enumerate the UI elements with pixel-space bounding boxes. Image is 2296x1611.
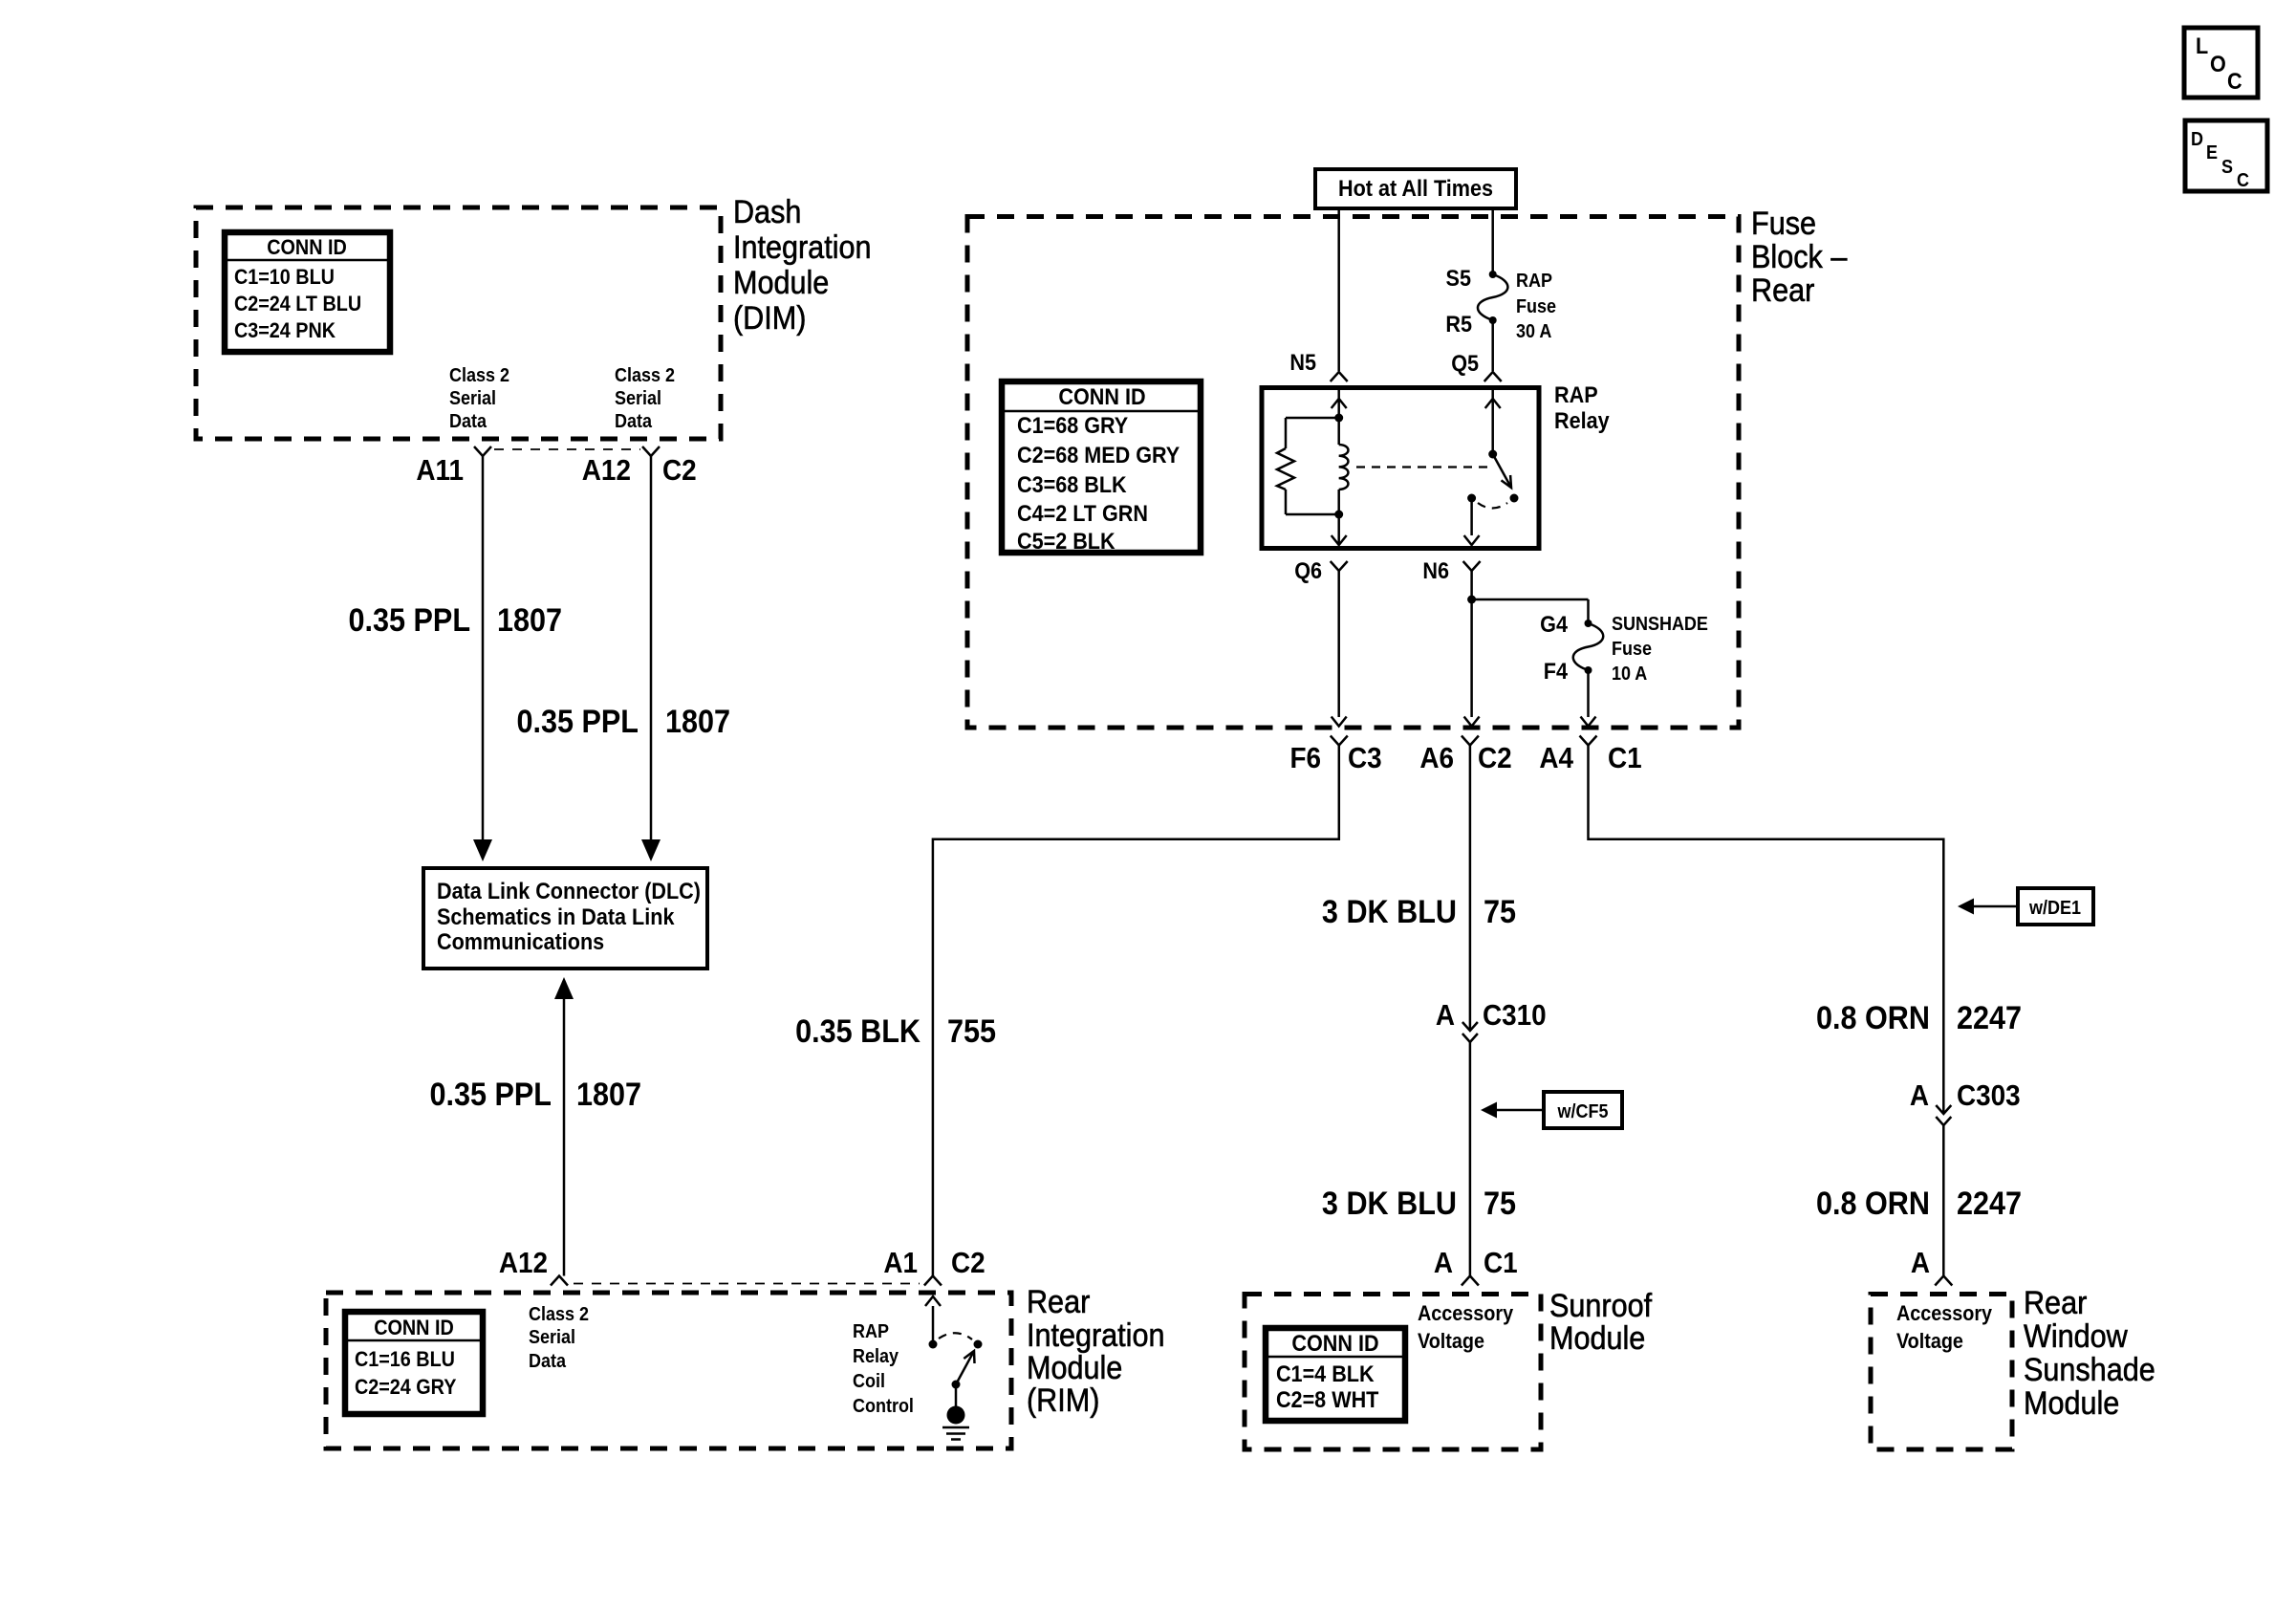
svg-text:1807: 1807 xyxy=(576,1077,641,1113)
RAP Relay box xyxy=(1262,388,1539,549)
relay switch NO contact xyxy=(1510,494,1519,503)
wire label 0.35 PPL 1807 (A12) xyxy=(516,704,730,740)
svg-text:C: C xyxy=(2237,170,2249,191)
svg-text:A12: A12 xyxy=(582,454,631,488)
svg-text:Voltage: Voltage xyxy=(1418,1330,1484,1353)
RIM connector terminal A1 / C2 xyxy=(883,1247,985,1286)
ground symbol xyxy=(942,1406,969,1440)
svg-text:C1=4 BLK: C1=4 BLK xyxy=(1276,1361,1375,1386)
svg-text:CONN ID: CONN ID xyxy=(267,236,347,259)
wire: A12 to DLC (0.35 PPL 1807) xyxy=(641,456,661,861)
wire label 3 DK BLU 75 (lower) xyxy=(1322,1186,1516,1222)
svg-text:L: L xyxy=(2196,33,2208,58)
svg-text:Window: Window xyxy=(2024,1318,2128,1355)
svg-text:(RIM): (RIM) xyxy=(1027,1382,1099,1419)
svg-text:Integration: Integration xyxy=(1027,1317,1165,1354)
label: Accessory Voltage (Sunroof) xyxy=(1418,1302,1513,1353)
svg-text:A11: A11 xyxy=(416,454,464,488)
svg-text:C2: C2 xyxy=(951,1247,986,1280)
svg-text:C1: C1 xyxy=(1608,742,1642,775)
svg-text:RAP: RAP xyxy=(1516,271,1552,292)
wire label 0.35 PPL 1807 (A11) xyxy=(349,602,563,639)
svg-text:Class 2: Class 2 xyxy=(449,365,509,386)
CONN ID table (DIM) xyxy=(225,232,390,352)
connector terminal A11 (DIM) xyxy=(416,446,491,487)
svg-text:3 DK BLU: 3 DK BLU xyxy=(1322,894,1457,930)
svg-text:Dash: Dash xyxy=(733,194,801,230)
in-line connector A C310 xyxy=(1436,999,1547,1042)
wire label 3 DK BLU 75 (upper) xyxy=(1322,894,1516,930)
svg-text:w/CF5: w/CF5 xyxy=(1557,1101,1609,1122)
wire: F4 to fuse block edge A4 xyxy=(1581,670,1596,727)
svg-text:w/DE1: w/DE1 xyxy=(2028,898,2081,919)
CONN ID table (RIM) xyxy=(345,1312,483,1414)
svg-text:D: D xyxy=(2191,129,2203,150)
rear window sunshade connector terminal A xyxy=(1911,1247,1952,1286)
RIM driver: arrow up to A1 xyxy=(925,1296,941,1344)
wire: C3 to RIM A1 (0.35 BLK 755) xyxy=(933,746,1339,1276)
svg-text:Block –: Block – xyxy=(1751,239,1847,275)
svg-text:F4: F4 xyxy=(1544,658,1568,684)
label: Rear Window Sunshade Module xyxy=(2024,1285,2155,1422)
svg-text:Sunroof: Sunroof xyxy=(1549,1288,1653,1324)
svg-text:CONN ID: CONN ID xyxy=(1291,1330,1378,1356)
wire: RIM A12 up to DLC (0.35 PPL 1807) xyxy=(554,977,574,1276)
svg-text:A1: A1 xyxy=(883,1247,918,1280)
svg-text:Serial: Serial xyxy=(449,388,496,409)
svg-text:C2=8 WHT: C2=8 WHT xyxy=(1276,1386,1378,1412)
box: Hot at All Times xyxy=(1315,169,1516,208)
wire label 0.8 ORN 2247 (upper) xyxy=(1816,1000,2022,1036)
RAP Fuse 30 A (S5-R5) xyxy=(1445,265,1556,342)
svg-text:Relay: Relay xyxy=(1554,407,1610,433)
svg-text:0.35 PPL: 0.35 PPL xyxy=(429,1077,552,1113)
wire: junction branch to SUNSHADE fuse xyxy=(1472,599,1589,623)
svg-text:A12: A12 xyxy=(499,1247,548,1280)
relay pin Q6 xyxy=(1294,557,1347,583)
relay switch pivot xyxy=(1488,450,1497,459)
svg-text:Module: Module xyxy=(2024,1385,2119,1422)
svg-text:2247: 2247 xyxy=(1957,1186,2022,1222)
wire: A11 to DLC (0.35 PPL 1807) xyxy=(473,456,492,861)
label: Rear Integration Module (RIM) xyxy=(1027,1284,1165,1419)
svg-text:Serial: Serial xyxy=(529,1327,575,1348)
svg-text:C1=68 GRY: C1=68 GRY xyxy=(1017,412,1128,438)
harness tag w/DE1 xyxy=(1958,888,2093,925)
svg-text:Rear: Rear xyxy=(1027,1284,1091,1320)
svg-text:Data: Data xyxy=(529,1351,566,1372)
svg-text:C1=16 BLU: C1=16 BLU xyxy=(355,1348,455,1371)
svg-text:A4: A4 xyxy=(1539,742,1573,775)
svg-text:Relay: Relay xyxy=(853,1346,899,1367)
wire: Hot feed to RAP fuse xyxy=(1491,208,1494,274)
relay coil input arrow (N5) xyxy=(1332,389,1347,418)
label: Class 2 Serial Data (A11) xyxy=(449,365,509,432)
svg-text:Control: Control xyxy=(853,1396,914,1417)
module box: Fuse Block - Rear xyxy=(967,217,1739,729)
svg-text:Data Link Connector (DLC): Data Link Connector (DLC) xyxy=(437,878,701,903)
svg-text:C1: C1 xyxy=(1484,1247,1518,1280)
module box: Rear Window Sunshade Module xyxy=(1871,1295,2012,1450)
svg-text:30 A: 30 A xyxy=(1516,321,1552,342)
relay coil output arrow (Q6) xyxy=(1332,514,1347,545)
relay actuation dashed link xyxy=(1356,466,1489,468)
connector pin N5 xyxy=(1289,349,1347,381)
svg-text:CONN ID: CONN ID xyxy=(1058,383,1145,409)
svg-text:RAP: RAP xyxy=(853,1321,889,1342)
svg-text:R5: R5 xyxy=(1445,311,1472,337)
svg-text:C2=68 MED GRY: C2=68 MED GRY xyxy=(1017,442,1180,468)
svg-text:G4: G4 xyxy=(1540,611,1568,637)
wire: junction to fuse block edge A6 xyxy=(1464,599,1480,727)
svg-text:1807: 1807 xyxy=(497,602,562,639)
svg-text:Coil: Coil xyxy=(853,1371,885,1392)
svg-text:0.35 PPL: 0.35 PPL xyxy=(516,704,639,740)
wire: arm to ground xyxy=(955,1384,958,1406)
connector face dashed line A11-A12 xyxy=(494,448,640,450)
label: Fuse Block - Rear xyxy=(1751,206,1847,309)
svg-text:A: A xyxy=(1434,1247,1453,1280)
module box: Sunroof Module xyxy=(1245,1295,1541,1450)
svg-text:Integration: Integration xyxy=(733,229,872,266)
svg-text:Q6: Q6 xyxy=(1294,557,1322,583)
label: RAP Relay xyxy=(1554,381,1610,433)
svg-text:C3=68 BLK: C3=68 BLK xyxy=(1017,471,1127,497)
svg-text:0.8 ORN: 0.8 ORN xyxy=(1816,1186,1930,1222)
CONN ID table (Sunroof) xyxy=(1266,1328,1405,1421)
svg-text:C2=24 LT BLU: C2=24 LT BLU xyxy=(234,293,361,316)
svg-text:Accessory: Accessory xyxy=(1896,1302,1992,1325)
svg-text:Fuse: Fuse xyxy=(1612,639,1652,660)
wire: C303 to rear window sunshade module xyxy=(1942,1125,1945,1276)
svg-text:Module: Module xyxy=(733,265,829,301)
svg-text:Hot at All Times: Hot at All Times xyxy=(1338,175,1493,201)
svg-text:75: 75 xyxy=(1484,1186,1516,1222)
fuse block bottom connector A4/C1 xyxy=(1539,736,1641,775)
wire label 0.8 ORN 2247 (lower) xyxy=(1816,1186,2022,1222)
svg-text:Q5: Q5 xyxy=(1451,350,1479,376)
module box: Dash Integration Module (DIM) xyxy=(196,207,721,439)
svg-text:C4=2 LT GRN: C4=2 LT GRN xyxy=(1017,500,1148,526)
connector pin Q5 xyxy=(1451,350,1502,381)
relay resistor (parallel with coil) xyxy=(1277,418,1339,514)
label: Dash Integration Module (DIM) xyxy=(733,194,872,337)
box: Data Link Connector (DLC) note xyxy=(423,868,707,969)
svg-text:Class 2: Class 2 xyxy=(529,1304,589,1325)
svg-text:C5=2 BLK: C5=2 BLK xyxy=(1017,528,1116,554)
sunroof connector terminal A / C1 xyxy=(1434,1247,1518,1286)
svg-text:E: E xyxy=(2206,142,2218,163)
svg-text:S: S xyxy=(2221,157,2233,178)
svg-text:C310: C310 xyxy=(1483,999,1547,1033)
svg-text:C303: C303 xyxy=(1957,1079,2021,1113)
svg-text:Schematics in Data Link: Schematics in Data Link xyxy=(437,903,675,929)
wire label 0.35 PPL 1807 (RIM A12) xyxy=(429,1077,641,1113)
wire: C1 to C303 (0.8 ORN 2247) xyxy=(1589,746,1944,1115)
LOC page marker xyxy=(2184,28,2258,98)
svg-text:CONN ID: CONN ID xyxy=(374,1317,454,1339)
svg-text:Fuse: Fuse xyxy=(1516,296,1556,317)
RIM connector terminal A12 xyxy=(499,1247,568,1286)
label: Class 2 Serial Data (RIM) xyxy=(529,1304,589,1372)
fuse block bottom connector F6/C3 xyxy=(1289,736,1381,775)
svg-text:755: 755 xyxy=(947,1013,996,1050)
wire label 0.35 BLK 755 xyxy=(795,1013,996,1050)
relay node: coil bottom junction xyxy=(1334,511,1343,519)
svg-text:A6: A6 xyxy=(1419,742,1454,775)
wire: fuse R5 to Q5 xyxy=(1491,320,1494,371)
relay switch movable arm xyxy=(1493,454,1511,488)
module box: Rear Integration Module (RIM) xyxy=(326,1293,1011,1448)
svg-text:C3=24 PNK: C3=24 PNK xyxy=(234,319,336,342)
svg-text:Sunshade: Sunshade xyxy=(2024,1352,2155,1388)
svg-text:C2: C2 xyxy=(1478,742,1512,775)
relay switch output contact (N6) xyxy=(1467,494,1476,503)
svg-text:2247: 2247 xyxy=(1957,1000,2022,1036)
svg-text:0.8 ORN: 0.8 ORN xyxy=(1816,1000,1930,1036)
svg-text:C3: C3 xyxy=(1348,742,1382,775)
RIM switch dashed throw arc xyxy=(939,1333,972,1339)
svg-text:Rear: Rear xyxy=(1751,272,1815,309)
relay switch common input arrow (Q5) xyxy=(1485,389,1501,454)
svg-text:A: A xyxy=(1911,1247,1930,1280)
wire: N6 down to junction xyxy=(1470,571,1473,599)
label: RAP Relay Coil Control xyxy=(853,1321,914,1417)
svg-text:F6: F6 xyxy=(1289,742,1321,775)
svg-text:Module: Module xyxy=(1549,1320,1645,1357)
svg-text:C2=24 GRY: C2=24 GRY xyxy=(355,1376,457,1399)
svg-text:C: C xyxy=(2227,68,2242,94)
svg-text:Rear: Rear xyxy=(2024,1285,2088,1321)
svg-text:A: A xyxy=(1910,1079,1929,1113)
svg-text:(DIM): (DIM) xyxy=(733,300,806,337)
label: Accessory Voltage (RWSM) xyxy=(1896,1302,1992,1353)
svg-text:1807: 1807 xyxy=(665,704,730,740)
svg-text:A: A xyxy=(1436,999,1455,1033)
svg-text:Serial: Serial xyxy=(615,388,661,409)
svg-text:S5: S5 xyxy=(1446,265,1472,291)
svg-text:Class 2: Class 2 xyxy=(615,365,675,386)
svg-text:SUNSHADE: SUNSHADE xyxy=(1612,614,1708,635)
svg-text:0.35 BLK: 0.35 BLK xyxy=(795,1013,921,1050)
svg-text:RAP: RAP xyxy=(1554,381,1598,407)
RIM switch arm pivot xyxy=(952,1381,961,1389)
svg-text:10 A: 10 A xyxy=(1612,664,1648,685)
svg-text:N6: N6 xyxy=(1422,557,1449,583)
relay pin N6 xyxy=(1422,557,1480,583)
RIM switch movable arm xyxy=(956,1351,975,1384)
in-line connector A C303 xyxy=(1910,1079,2021,1125)
relay switch output arrow xyxy=(1464,498,1480,545)
svg-text:Fuse: Fuse xyxy=(1751,206,1816,242)
svg-text:Communications: Communications xyxy=(437,928,604,954)
harness tag w/CF5 xyxy=(1481,1092,1622,1128)
wire: Q6 to fuse block edge F6 xyxy=(1332,571,1347,727)
CONN ID table (Fuse Block) xyxy=(1002,381,1201,554)
wire: C2 down to C310 (3 DK BLU 75) xyxy=(1469,746,1472,1032)
node: N6 branch junction xyxy=(1467,596,1476,604)
RIM switch contact (left) xyxy=(929,1340,938,1349)
svg-text:Accessory: Accessory xyxy=(1418,1302,1513,1325)
svg-text:0.35 PPL: 0.35 PPL xyxy=(349,602,471,639)
RIM switch contact (right) xyxy=(974,1340,983,1349)
svg-text:C2: C2 xyxy=(662,454,697,488)
svg-text:3 DK BLU: 3 DK BLU xyxy=(1322,1186,1457,1222)
svg-text:N5: N5 xyxy=(1289,349,1316,375)
svg-text:75: 75 xyxy=(1484,894,1516,930)
wire: C310 to sunroof module xyxy=(1469,1042,1472,1276)
relay node: coil top junction xyxy=(1334,414,1343,423)
wire: Hot feed to N5 xyxy=(1337,208,1340,371)
svg-text:C1=10 BLU: C1=10 BLU xyxy=(234,266,335,289)
connector face dashed line A12-A1 xyxy=(574,1283,920,1285)
label: Class 2 Serial Data (A12) xyxy=(615,365,675,432)
svg-text:Module: Module xyxy=(1027,1350,1122,1386)
svg-text:Data: Data xyxy=(615,411,652,432)
svg-text:Data: Data xyxy=(449,411,487,432)
fuse block bottom connector A6/C2 xyxy=(1419,736,1511,775)
DESC page marker xyxy=(2185,120,2267,191)
SUNSHADE Fuse 10 A (G4-F4) xyxy=(1540,611,1708,685)
connector terminal A12 / C2 (DIM) xyxy=(582,446,697,487)
svg-text:Voltage: Voltage xyxy=(1896,1330,1963,1353)
svg-text:O: O xyxy=(2210,51,2226,76)
label: Sunroof Module xyxy=(1549,1288,1653,1357)
relay switch dashed throw arc xyxy=(1478,503,1507,509)
relay coil xyxy=(1339,418,1349,514)
